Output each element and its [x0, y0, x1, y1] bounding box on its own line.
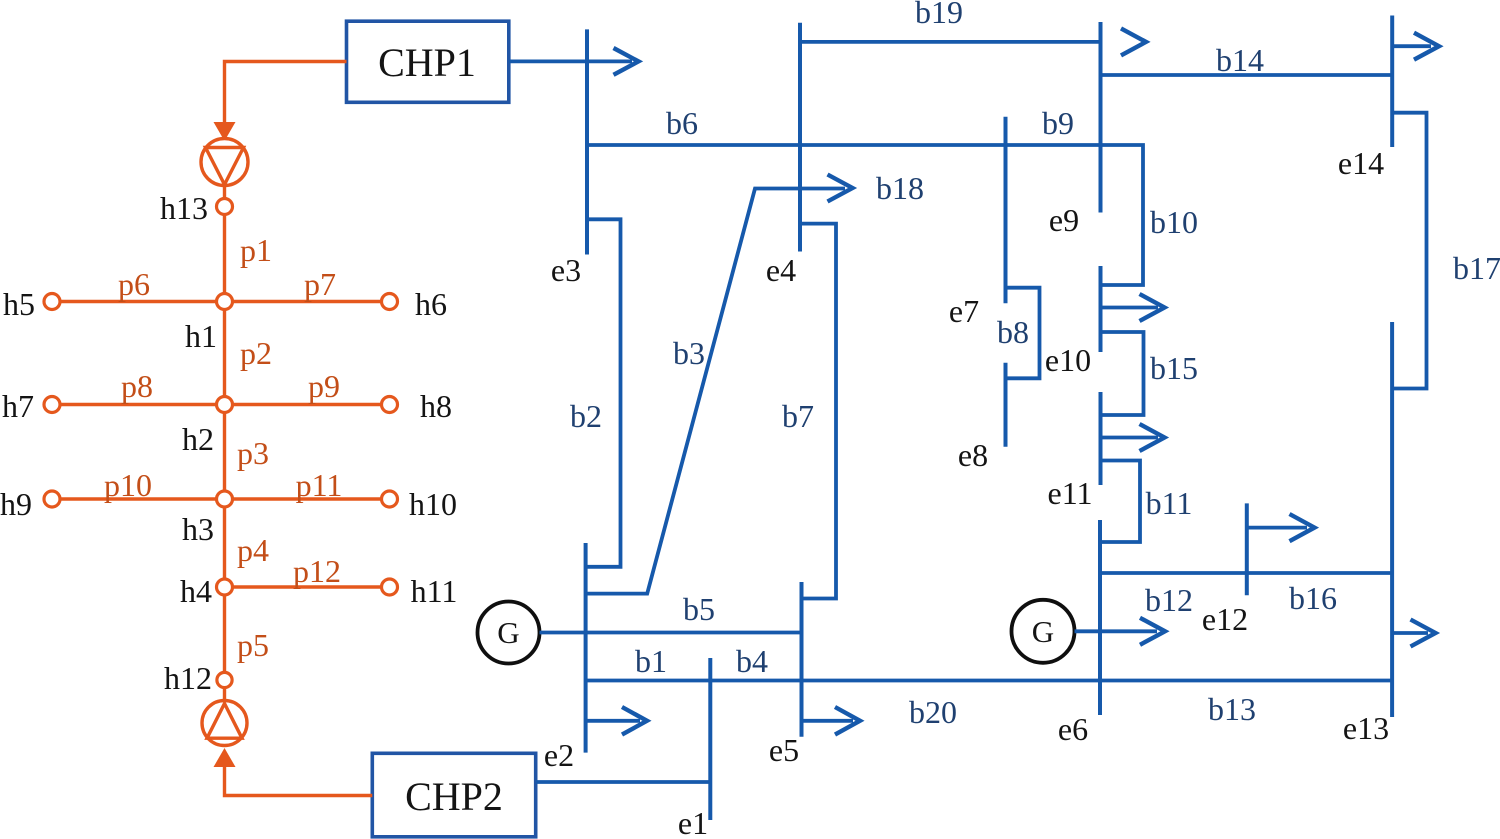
svg-text:e8: e8 — [958, 437, 988, 473]
node h12 — [217, 672, 232, 687]
pump symbol bottom — [202, 701, 247, 746]
generator G left — [478, 602, 540, 664]
branch b5 and generator lead — [540, 631, 802, 635]
bus e9 — [1099, 22, 1103, 213]
svg-text:b15: b15 — [1150, 350, 1198, 386]
svg-text:e7: e7 — [949, 293, 979, 329]
branch b6 b9 b10 — [587, 145, 1143, 285]
svg-text:h4: h4 — [180, 573, 212, 609]
load arrow at e5 — [802, 707, 861, 735]
pipe p1 — [223, 215, 226, 294]
svg-text:h1: h1 — [185, 318, 217, 354]
svg-text:h6: h6 — [415, 286, 447, 322]
branch b1 b4 b20 b13 — [586, 679, 1393, 683]
load arrow at e10 — [1101, 294, 1165, 321]
svg-text:h3: h3 — [182, 511, 214, 547]
wire CHP2 output to bus e1 — [536, 780, 710, 784]
svg-text:p1: p1 — [240, 232, 272, 268]
svg-text:b2: b2 — [570, 398, 602, 434]
svg-text:e11: e11 — [1047, 475, 1092, 511]
node h11 — [382, 579, 398, 595]
svg-text:b4: b4 — [736, 643, 768, 679]
pipe p8 — [60, 403, 217, 406]
pipe p7 — [233, 300, 382, 303]
svg-text:p12: p12 — [293, 553, 341, 589]
svg-text:h13: h13 — [160, 190, 208, 226]
svg-text:p3: p3 — [237, 435, 269, 471]
pump symbol top — [201, 139, 248, 186]
node h9 — [44, 491, 60, 507]
svg-text:CHP1: CHP1 — [378, 40, 476, 85]
svg-text:b14: b14 — [1216, 42, 1264, 78]
svg-text:e5: e5 — [769, 732, 799, 768]
svg-text:p6: p6 — [118, 266, 150, 302]
branch b15 — [1101, 332, 1144, 415]
svg-text:p7: p7 — [304, 266, 336, 302]
svg-text:b20: b20 — [909, 694, 957, 730]
arrowhead into top pump — [214, 122, 236, 141]
branch b17 — [1392, 113, 1426, 389]
svg-text:e13: e13 — [1343, 710, 1389, 746]
pipe p4 — [223, 507, 226, 579]
svg-text:p11: p11 — [296, 467, 343, 503]
node h5 — [44, 294, 60, 310]
wire CHP1 output arrow to bus e3 — [509, 48, 639, 75]
branch b2 — [586, 219, 621, 567]
load arrow at e2 — [586, 707, 647, 735]
node h7 — [44, 397, 60, 413]
svg-text:e2: e2 — [544, 737, 574, 773]
pipe p5 — [223, 595, 226, 673]
bus e5 — [800, 582, 804, 737]
svg-text:p2: p2 — [240, 335, 272, 371]
bus e11 — [1099, 392, 1103, 485]
svg-text:b17: b17 — [1453, 250, 1500, 286]
svg-text:h5: h5 — [3, 286, 35, 322]
wire pump to h13 — [223, 186, 226, 199]
svg-text:e4: e4 — [766, 252, 796, 288]
pipe p12 — [233, 585, 382, 588]
generator G right with arrow — [1012, 600, 1166, 663]
svg-text:h11: h11 — [411, 573, 458, 609]
node h10 — [382, 491, 398, 507]
svg-text:e1: e1 — [678, 805, 708, 839]
bus e7 — [1004, 117, 1008, 303]
svg-text:b1: b1 — [635, 643, 667, 679]
svg-text:b13: b13 — [1208, 691, 1256, 727]
svg-text:h7: h7 — [2, 388, 34, 424]
load arrow at e11 — [1101, 424, 1165, 451]
svg-text:p5: p5 — [237, 627, 269, 663]
svg-text:h12: h12 — [164, 660, 212, 696]
svg-text:G: G — [497, 615, 519, 650]
svg-text:e3: e3 — [551, 252, 581, 288]
branch b19 with arrow — [800, 28, 1146, 55]
branch b14 — [1101, 73, 1393, 77]
node h1 — [217, 294, 233, 310]
svg-text:p4: p4 — [237, 532, 269, 568]
node h3 — [217, 491, 233, 507]
svg-text:b5: b5 — [683, 591, 715, 627]
load arrow at e12 — [1247, 514, 1315, 541]
bus e4 — [798, 23, 802, 252]
bus e1 — [708, 658, 712, 820]
pipe p9 — [233, 403, 382, 406]
arrow at e14 — [1392, 33, 1439, 60]
pipe p2 — [223, 310, 226, 397]
branch b8 — [1006, 288, 1040, 379]
bus e2 — [584, 543, 588, 753]
load arrow at e13 — [1392, 620, 1435, 647]
svg-text:b6: b6 — [666, 105, 698, 141]
svg-text:b9: b9 — [1042, 105, 1074, 141]
node h8 — [382, 397, 398, 413]
svg-text:G: G — [1032, 614, 1054, 649]
branch b11 — [1101, 461, 1141, 543]
wire h12 to pump — [223, 688, 226, 702]
node h2 — [217, 397, 233, 413]
node h6 — [382, 294, 398, 310]
svg-text:b8: b8 — [997, 314, 1029, 350]
svg-text:h9: h9 — [0, 486, 32, 522]
bus e12 — [1245, 503, 1249, 595]
pipe p3 — [223, 413, 226, 492]
svg-text:e6: e6 — [1058, 711, 1088, 747]
arrowhead into bottom pump — [214, 748, 236, 767]
node h4 — [217, 579, 233, 595]
svg-text:h8: h8 — [420, 388, 452, 424]
svg-text:p9: p9 — [308, 368, 340, 404]
svg-text:e14: e14 — [1338, 145, 1384, 181]
branch b3 with b18 arrow — [586, 175, 853, 594]
pipe p11 — [233, 497, 382, 500]
svg-text:CHP2: CHP2 — [405, 774, 503, 819]
svg-text:h10: h10 — [409, 486, 457, 522]
bus e3 — [585, 29, 589, 254]
pipe p10 — [60, 497, 217, 500]
bus e6 — [1098, 520, 1102, 715]
bus e13 — [1390, 322, 1394, 717]
wire CHP1 to pump (orange) — [225, 62, 347, 124]
bus e8 — [1004, 363, 1008, 447]
branch b12 b16 — [1100, 571, 1392, 575]
svg-text:b19: b19 — [915, 0, 963, 30]
svg-text:b16: b16 — [1289, 580, 1337, 616]
svg-text:p10: p10 — [104, 467, 152, 503]
bus e10 — [1099, 266, 1103, 352]
svg-text:b12: b12 — [1145, 582, 1193, 618]
CHP unit CHP2 — [372, 753, 535, 837]
wire pump to CHP2 — [225, 766, 373, 796]
svg-text:p8: p8 — [121, 368, 153, 404]
svg-text:b7: b7 — [782, 398, 814, 434]
bus e14 — [1390, 16, 1394, 148]
svg-text:h2: h2 — [182, 421, 214, 457]
svg-text:b18: b18 — [876, 170, 924, 206]
CHP unit CHP1 — [347, 21, 509, 102]
svg-text:b11: b11 — [1146, 485, 1193, 521]
svg-text:e12: e12 — [1202, 601, 1248, 637]
svg-text:b10: b10 — [1150, 204, 1198, 240]
svg-text:e10: e10 — [1045, 342, 1091, 378]
branch b7 — [800, 224, 836, 599]
node h13 — [217, 199, 233, 215]
svg-text:e9: e9 — [1049, 202, 1079, 238]
pipe p6 — [60, 300, 217, 303]
svg-text:b3: b3 — [673, 335, 705, 371]
